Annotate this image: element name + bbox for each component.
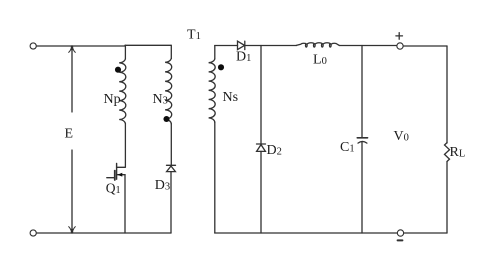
wire Q1 source to bottom rail (124, 175, 126, 233)
wire Np top (124, 45, 126, 59)
diode D1 (238, 41, 245, 49)
transistor Q1 (MOSFET) (117, 166, 125, 168)
diode D2 (257, 143, 266, 145)
wire Ns to bottom rail (214, 122, 216, 233)
terminal top-left (30, 43, 36, 49)
winding N3 (165, 59, 172, 124)
dot Np (polarity) (115, 67, 121, 73)
dot Ns (polarity) (218, 64, 224, 70)
label plus (396, 33, 403, 40)
winding Ns (209, 59, 216, 122)
dot N3 (polarity) (163, 116, 169, 122)
wire D2 to bottom rail (260, 151, 262, 233)
wire RL to bottom rail (446, 162, 448, 234)
capacitor C1 (357, 137, 367, 139)
wire D2 column top (260, 46, 262, 145)
wire bottom primary rail (37, 232, 172, 234)
wire Ns top (214, 46, 216, 60)
wire L0 to + terminal (339, 45, 396, 47)
E source arrow (double-headed) (71, 47, 73, 232)
wire secondary bottom rail right (404, 232, 447, 234)
wire D3 to bottom rail (170, 172, 172, 233)
svg-text:E: E (65, 127, 74, 142)
wire D1 to L0 (245, 45, 297, 47)
diode D3 (167, 164, 176, 166)
inductor L0 (296, 43, 339, 47)
label minus (398, 239, 403, 241)
wire + terminal to RL (403, 45, 447, 47)
winding Np (119, 59, 126, 123)
svg-text:Ns: Ns (223, 90, 239, 105)
terminal + output (397, 43, 403, 49)
wire secondary top rail to D1 (215, 45, 238, 47)
wire N3 to D3 (170, 124, 172, 166)
wire RL column top (446, 46, 448, 143)
svg-text:Np: Np (104, 92, 121, 107)
wire N3 top (170, 45, 172, 58)
wire Np bottom to Q1 drain (124, 123, 126, 167)
terminal - output (397, 230, 403, 236)
terminal bottom-left (30, 230, 36, 236)
resistor RL (445, 143, 450, 162)
wire C1 to bottom rail (361, 142, 363, 233)
wire C1 column top (361, 46, 363, 138)
wire top primary rail (37, 44, 172, 47)
wire secondary bottom rail left (215, 232, 397, 234)
